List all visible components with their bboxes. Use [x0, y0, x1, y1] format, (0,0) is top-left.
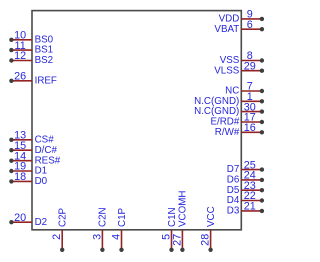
svg-text:21: 21: [244, 201, 256, 213]
svg-text:IREF: IREF: [35, 75, 57, 86]
pin 9 VDD (right): [219, 9, 264, 25]
svg-text:VBAT: VBAT: [214, 24, 239, 35]
svg-text:D4: D4: [227, 195, 240, 206]
pin 23 D5 (right): [227, 180, 264, 196]
svg-text:6: 6: [247, 19, 253, 31]
svg-text:C1N: C1N: [167, 207, 178, 227]
svg-text:12: 12: [14, 50, 26, 62]
svg-text:BS1: BS1: [35, 45, 54, 56]
svg-text:D3: D3: [227, 206, 240, 217]
pin 19 D1 (left): [9, 161, 47, 177]
pin 16 R/W# (right): [215, 122, 264, 138]
pin 11 BS1 (left): [9, 40, 53, 56]
svg-text:27: 27: [171, 234, 183, 246]
pin 15 D/C# (left): [9, 140, 57, 156]
svg-text:VCOMH: VCOMH: [178, 191, 189, 227]
pin 14 RES# (left): [9, 150, 61, 166]
svg-text:20: 20: [14, 212, 26, 224]
pin 5 C1N (bottom): [161, 207, 178, 252]
pin 29 VLSS (right): [214, 60, 264, 76]
svg-text:D/C#: D/C#: [35, 145, 58, 156]
pin 18 D0 (left): [9, 171, 47, 187]
pin 1 N.C(GND) (right): [194, 91, 264, 107]
svg-text:C1P: C1P: [117, 207, 128, 227]
pin 22 D4 (right): [227, 190, 264, 206]
svg-text:16: 16: [244, 122, 256, 134]
svg-text:D2: D2: [35, 217, 48, 228]
pin 24 D6 (right): [227, 170, 264, 186]
pin 26 IREF (left): [9, 71, 57, 87]
pin 8 VSS (right): [220, 50, 264, 66]
svg-text:C2N: C2N: [98, 207, 109, 227]
pin 6 VBAT (right): [214, 19, 264, 35]
pin 10 BS0 (left): [9, 30, 53, 46]
svg-text:CS#: CS#: [35, 134, 55, 145]
svg-text:D0: D0: [35, 176, 48, 187]
svg-text:D1: D1: [35, 166, 48, 177]
svg-text:N.C(GND): N.C(GND): [194, 106, 239, 117]
svg-text:18: 18: [14, 171, 26, 183]
svg-text:BS2: BS2: [35, 55, 54, 66]
svg-text:VCC: VCC: [206, 206, 217, 227]
svg-text:R/W#: R/W#: [215, 127, 240, 138]
pin 30 N.C(GND) (right): [194, 101, 264, 117]
svg-text:4: 4: [111, 234, 123, 240]
pin 4 C1P (bottom): [111, 207, 128, 252]
svg-text:28: 28: [200, 234, 212, 246]
pin 2 C2P (bottom): [51, 207, 68, 252]
svg-text:26: 26: [14, 71, 26, 83]
svg-text:2: 2: [51, 234, 63, 240]
svg-text:29: 29: [244, 60, 256, 72]
svg-text:VLSS: VLSS: [214, 65, 240, 76]
pin 28 VCC (bottom): [200, 206, 217, 252]
pin 13 CS# (left): [9, 130, 54, 146]
svg-text:C2P: C2P: [58, 207, 69, 227]
pin 3 C2N (bottom): [91, 207, 108, 252]
pin 21 D3 (right): [227, 201, 264, 217]
pin 12 BS2 (left): [9, 50, 53, 66]
pin 27 VCOMH (bottom): [171, 191, 188, 252]
IC body: [32, 11, 241, 230]
svg-text:3: 3: [91, 234, 103, 240]
pin 17 E/RD# (right): [210, 112, 264, 128]
pin 20 D2 (left): [9, 212, 47, 228]
pin 25 D7 (right): [227, 159, 264, 175]
pin 7 NC (right): [225, 81, 264, 97]
